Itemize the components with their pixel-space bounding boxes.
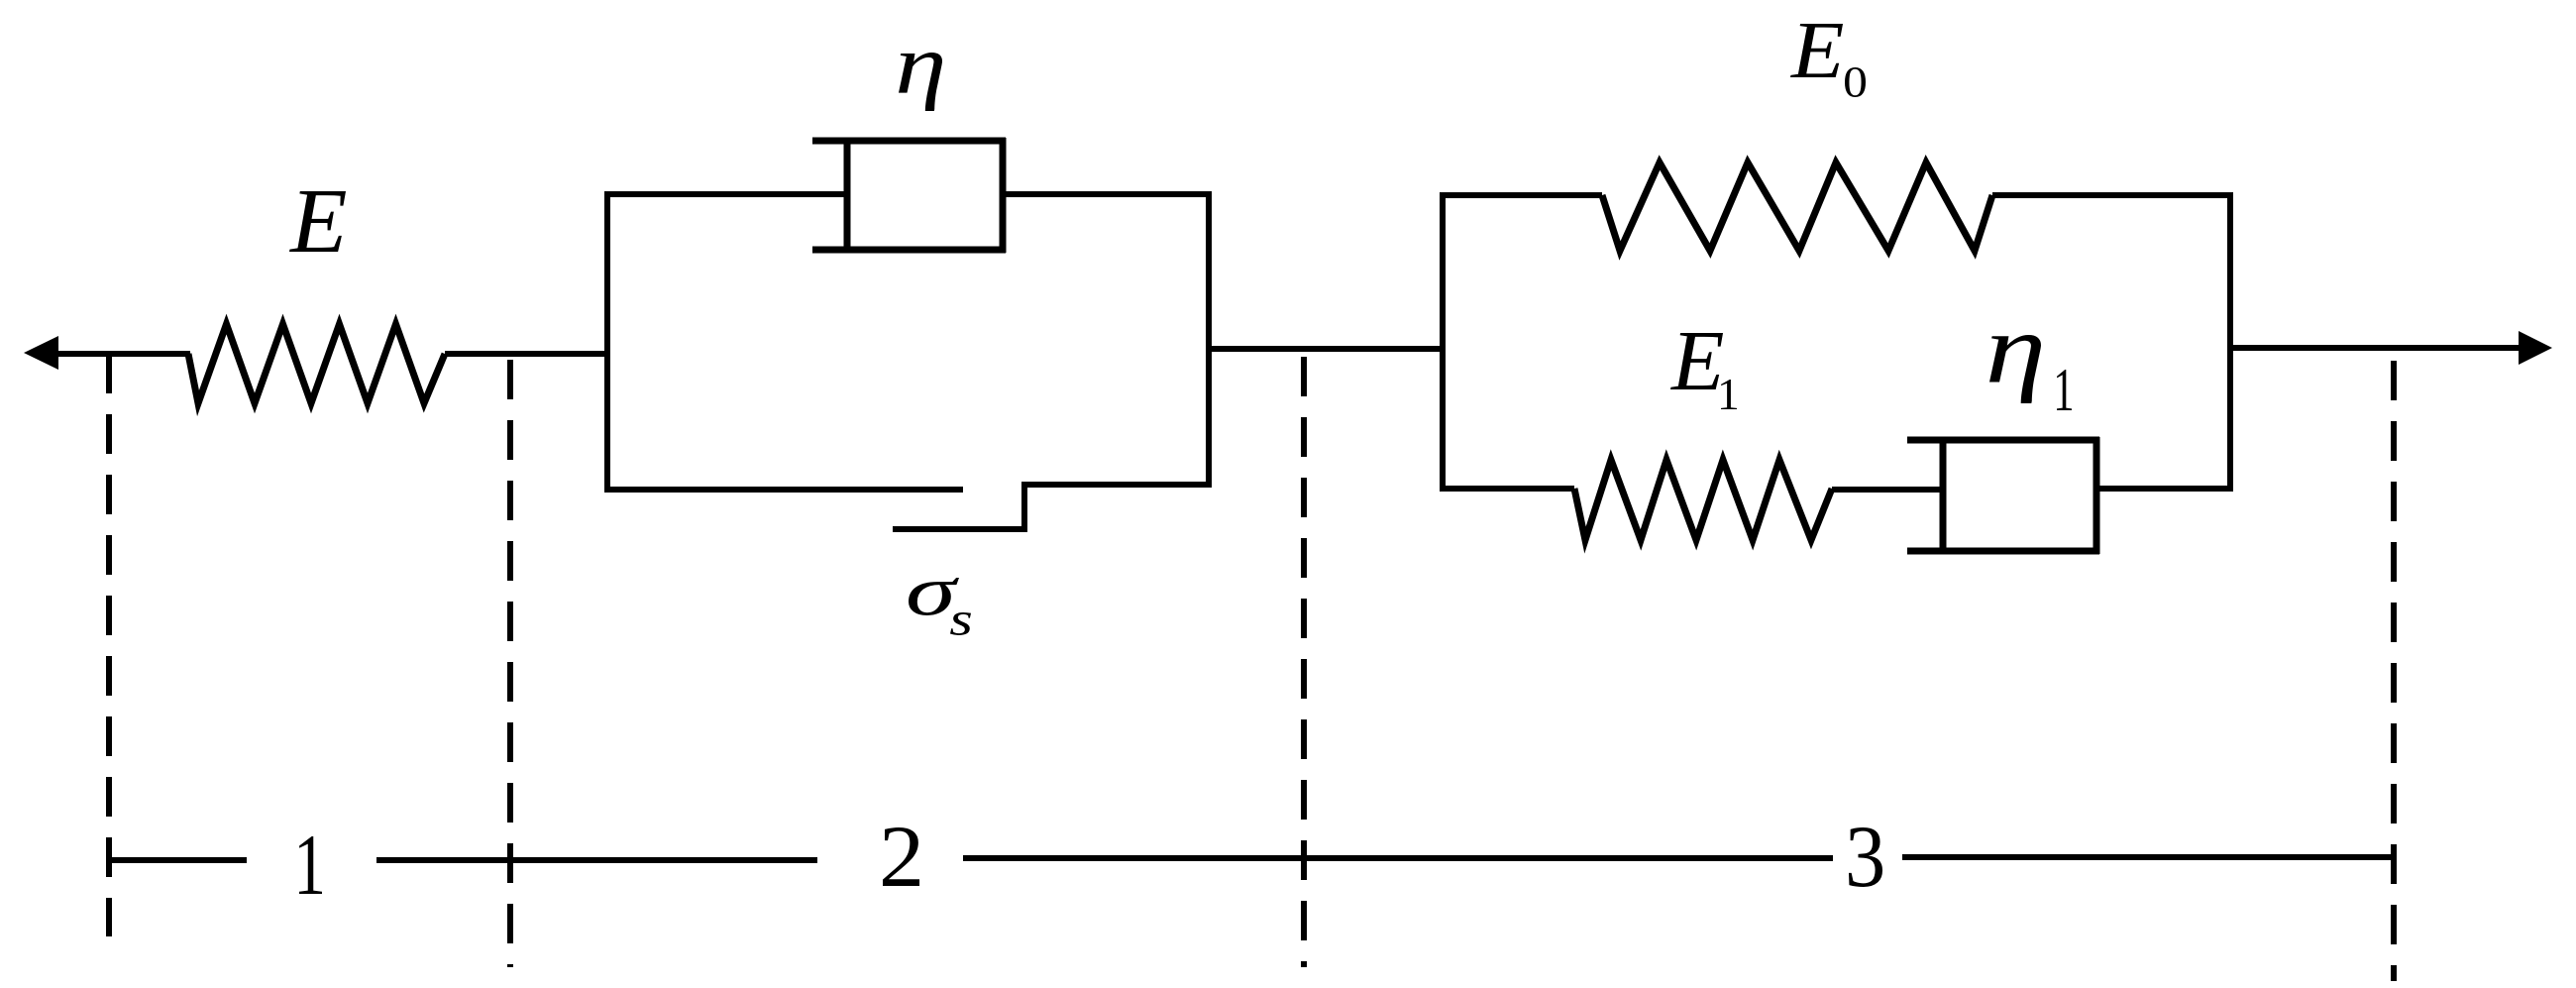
wire top branch to dashpot eta [604, 191, 847, 197]
label E [289, 191, 346, 252]
dashed section divider 3 [1301, 357, 1307, 967]
spring E1 [1574, 460, 1832, 540]
wire from left arrow to spring E [56, 351, 190, 357]
wire bottom branch to spring E1 [1440, 486, 1574, 492]
measure line segment 4 [1902, 854, 2394, 860]
dashpot eta1 cylinder top cap [1907, 437, 2099, 444]
label eta1 subscript 1 [2057, 370, 2072, 410]
label sigma_s subscript s [950, 612, 971, 635]
right parallel box right wall [2227, 192, 2233, 491]
dashpot eta1 cylinder bottom cap [1907, 548, 2099, 555]
node 2: left parallel box left wall [604, 193, 610, 490]
dashpot eta cylinder top cap [812, 138, 1006, 145]
right parallel box left wall [1440, 192, 1446, 491]
spring E [188, 324, 445, 403]
left arrow head [24, 336, 58, 370]
section label 2 [883, 827, 919, 886]
dashpot eta piston plate [844, 138, 851, 253]
dashpot eta1 piston plate [1940, 437, 1947, 554]
right arrow head [2519, 331, 2552, 365]
section label 1 [299, 836, 322, 894]
dashpot eta1 cylinder right wall [2093, 437, 2100, 554]
measure line segment 2 [376, 857, 817, 863]
spring E0 [1602, 163, 1992, 251]
label E0 E [1790, 24, 1843, 77]
label eta [899, 53, 942, 111]
friction slider vertical link [1021, 485, 1027, 532]
dashpot eta cylinder bottom cap [812, 247, 1006, 254]
wire from dashpot eta to right wall [1003, 191, 1212, 197]
exit wire to right arrow [2227, 345, 2521, 351]
dashed section divider 2 [507, 360, 513, 967]
friction slider sigma_s lower plate [893, 526, 1024, 532]
label sigma_s sigma [909, 578, 959, 615]
dashed section divider 4 [2391, 361, 2397, 981]
dashpot eta cylinder right wall [1000, 138, 1007, 253]
wire bottom branch right of friction slider [1021, 482, 1212, 488]
label E1 subscript 1 [1721, 380, 1737, 409]
wire from spring E0 to right wall [1992, 192, 2233, 198]
label E1 E [1670, 333, 1723, 389]
section label 3 [1849, 827, 1882, 887]
left parallel box right wall [1206, 193, 1212, 487]
measure line segment 1 [109, 857, 247, 863]
dashed section divider 1 [106, 354, 112, 936]
wire from dashpot eta1 to right wall [2096, 486, 2233, 492]
label eta1 eta [1989, 335, 2041, 403]
wire top branch to spring E0 [1440, 192, 1602, 198]
wire from spring E to node 2 [445, 351, 610, 357]
wire between section 2 and section 3 [1209, 346, 1446, 352]
wire from spring E1 to dashpot eta1 [1832, 487, 1943, 493]
measure line segment 3 [963, 855, 1833, 861]
wire bottom branch upper friction plate [604, 487, 963, 493]
label E0 subscript 0 [1845, 67, 1866, 97]
